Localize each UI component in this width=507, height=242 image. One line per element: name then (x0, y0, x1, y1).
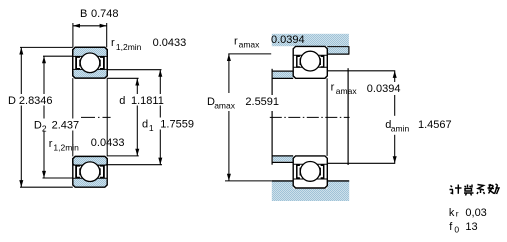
svg-text:0.0394: 0.0394 (367, 83, 401, 95)
svg-text:d: d (142, 119, 148, 131)
label f0 13 (449, 221, 477, 234)
label ramax (top left) (234, 35, 260, 49)
left bearing lower section: ball (80, 162, 100, 182)
svg-text:B: B (80, 8, 87, 20)
dimension d line with arrows (135, 78, 139, 155)
right bearing lower section: right shield (320, 165, 323, 178)
dimension da extension lines (327, 71, 395, 164)
svg-text:f: f (449, 221, 453, 233)
right drawing: shaft right break line (347, 68, 349, 165)
dimension da / ra shared line with arrows (393, 71, 397, 164)
svg-text:r: r (331, 82, 335, 94)
svg-text:amax: amax (336, 86, 358, 96)
right drawing: housing block top (272, 34, 349, 46)
svg-text:amax: amax (214, 100, 236, 110)
left bearing lower section: outer ring (73, 156, 107, 187)
left bearing upper section: outer ring (73, 47, 107, 78)
svg-text:1.4567: 1.4567 (418, 119, 452, 131)
svg-text:D: D (34, 120, 42, 132)
svg-text:13: 13 (465, 221, 477, 233)
svg-text:1: 1 (149, 123, 154, 133)
label ramax 0.0394 (middle right) (331, 82, 404, 97)
svg-text:0.0394: 0.0394 (271, 34, 305, 46)
label d1 1.7559 (141, 118, 198, 133)
dimension Da line with arrows (227, 54, 231, 181)
right drawing: axis centerline (270, 116, 350, 118)
right bearing upper section: outline (293, 46, 327, 78)
right bearing upper section: right shield (320, 56, 323, 67)
label B 0.748 (80, 8, 119, 20)
right bearing upper section: left shield (297, 56, 300, 67)
label d 1.1811 (118, 94, 168, 107)
svg-text:d: d (119, 95, 125, 107)
dimension D2 line with arrows (42, 56, 46, 178)
label kr 0,03 (449, 207, 487, 219)
right drawing: shaft shoulder lip top-left (272, 71, 293, 78)
label D 2.8346 (6, 94, 61, 107)
dimension B line with arrows (73, 24, 107, 28)
right drawing: housing block bottom (272, 181, 349, 201)
right bearing lower section: ball (300, 162, 320, 182)
svg-text:1,2min: 1,2min (53, 143, 79, 153)
right drawing: shaft shoulder lip bottom-left (272, 156, 293, 163)
svg-text:1,2min: 1,2min (116, 42, 142, 52)
label Damax 2.5591 (206, 93, 280, 111)
dimension B extension lines (73, 23, 107, 47)
svg-text:1.1811: 1.1811 (131, 95, 164, 107)
dimension D line with arrows (19, 47, 23, 187)
dimension d extension lines (107, 78, 139, 156)
left bearing upper section: right shield (100, 57, 104, 69)
left drawing: bore cylinder lines (73, 78, 107, 156)
dimension D2 extension lines (43, 56, 73, 178)
svg-text:0.748: 0.748 (91, 8, 119, 20)
svg-text:r: r (456, 209, 459, 219)
svg-text:r: r (111, 37, 115, 49)
label r1,2min 0.0433 (bottom) (49, 137, 125, 152)
svg-text:2: 2 (42, 124, 47, 134)
left bearing upper section: inner ring (73, 47, 107, 78)
left drawing: axis centerline (81, 116, 111, 118)
svg-text:D: D (8, 95, 16, 107)
dimension d1 extension lines (107, 70, 162, 165)
svg-text:amax: amax (239, 40, 261, 50)
dimension Da leader lines (225, 54, 272, 181)
right bearing lower section: outline (293, 156, 327, 188)
svg-text:amin: amin (391, 124, 410, 134)
dimension D extension lines (20, 47, 73, 187)
label r1,2min 0.0433 (top) (111, 37, 186, 52)
svg-text:r: r (49, 138, 53, 150)
left bearing upper section: ball (80, 53, 100, 73)
right drawing: shaft left face line (271, 69, 273, 165)
svg-text:r: r (234, 35, 238, 47)
svg-text:1.7559: 1.7559 (160, 119, 194, 131)
svg-text:0: 0 (454, 224, 459, 234)
left bearing lower section: inner ring (73, 156, 107, 165)
svg-text:2.5591: 2.5591 (245, 96, 279, 108)
title CJK: 计算系数 (drawn strokes) (450, 184, 500, 196)
svg-text:0,03: 0,03 (465, 207, 486, 219)
label D2 2.437 (33, 119, 80, 134)
label damin 1.4567 (384, 116, 453, 135)
right drawing: bearing right edge extension (326, 78, 328, 156)
left bearing upper section: left shield (76, 57, 80, 69)
svg-text:k: k (449, 207, 455, 219)
right bearing lower section: left shield (297, 165, 300, 178)
left bearing lower section: right shield (100, 166, 104, 178)
left bearing lower section: left shield (76, 166, 80, 178)
svg-text:0.0433: 0.0433 (153, 37, 187, 49)
dimension d1 line with arrows (158, 70, 162, 165)
svg-text:0.0433: 0.0433 (91, 137, 125, 149)
svg-text:2.8346: 2.8346 (19, 95, 53, 107)
label 0.0394 (top, on housing) (271, 34, 305, 46)
right drawing: housing shoulder lip top-right (327, 46, 349, 54)
right bearing upper section: ball (300, 51, 320, 71)
svg-text:2.437: 2.437 (52, 120, 80, 132)
